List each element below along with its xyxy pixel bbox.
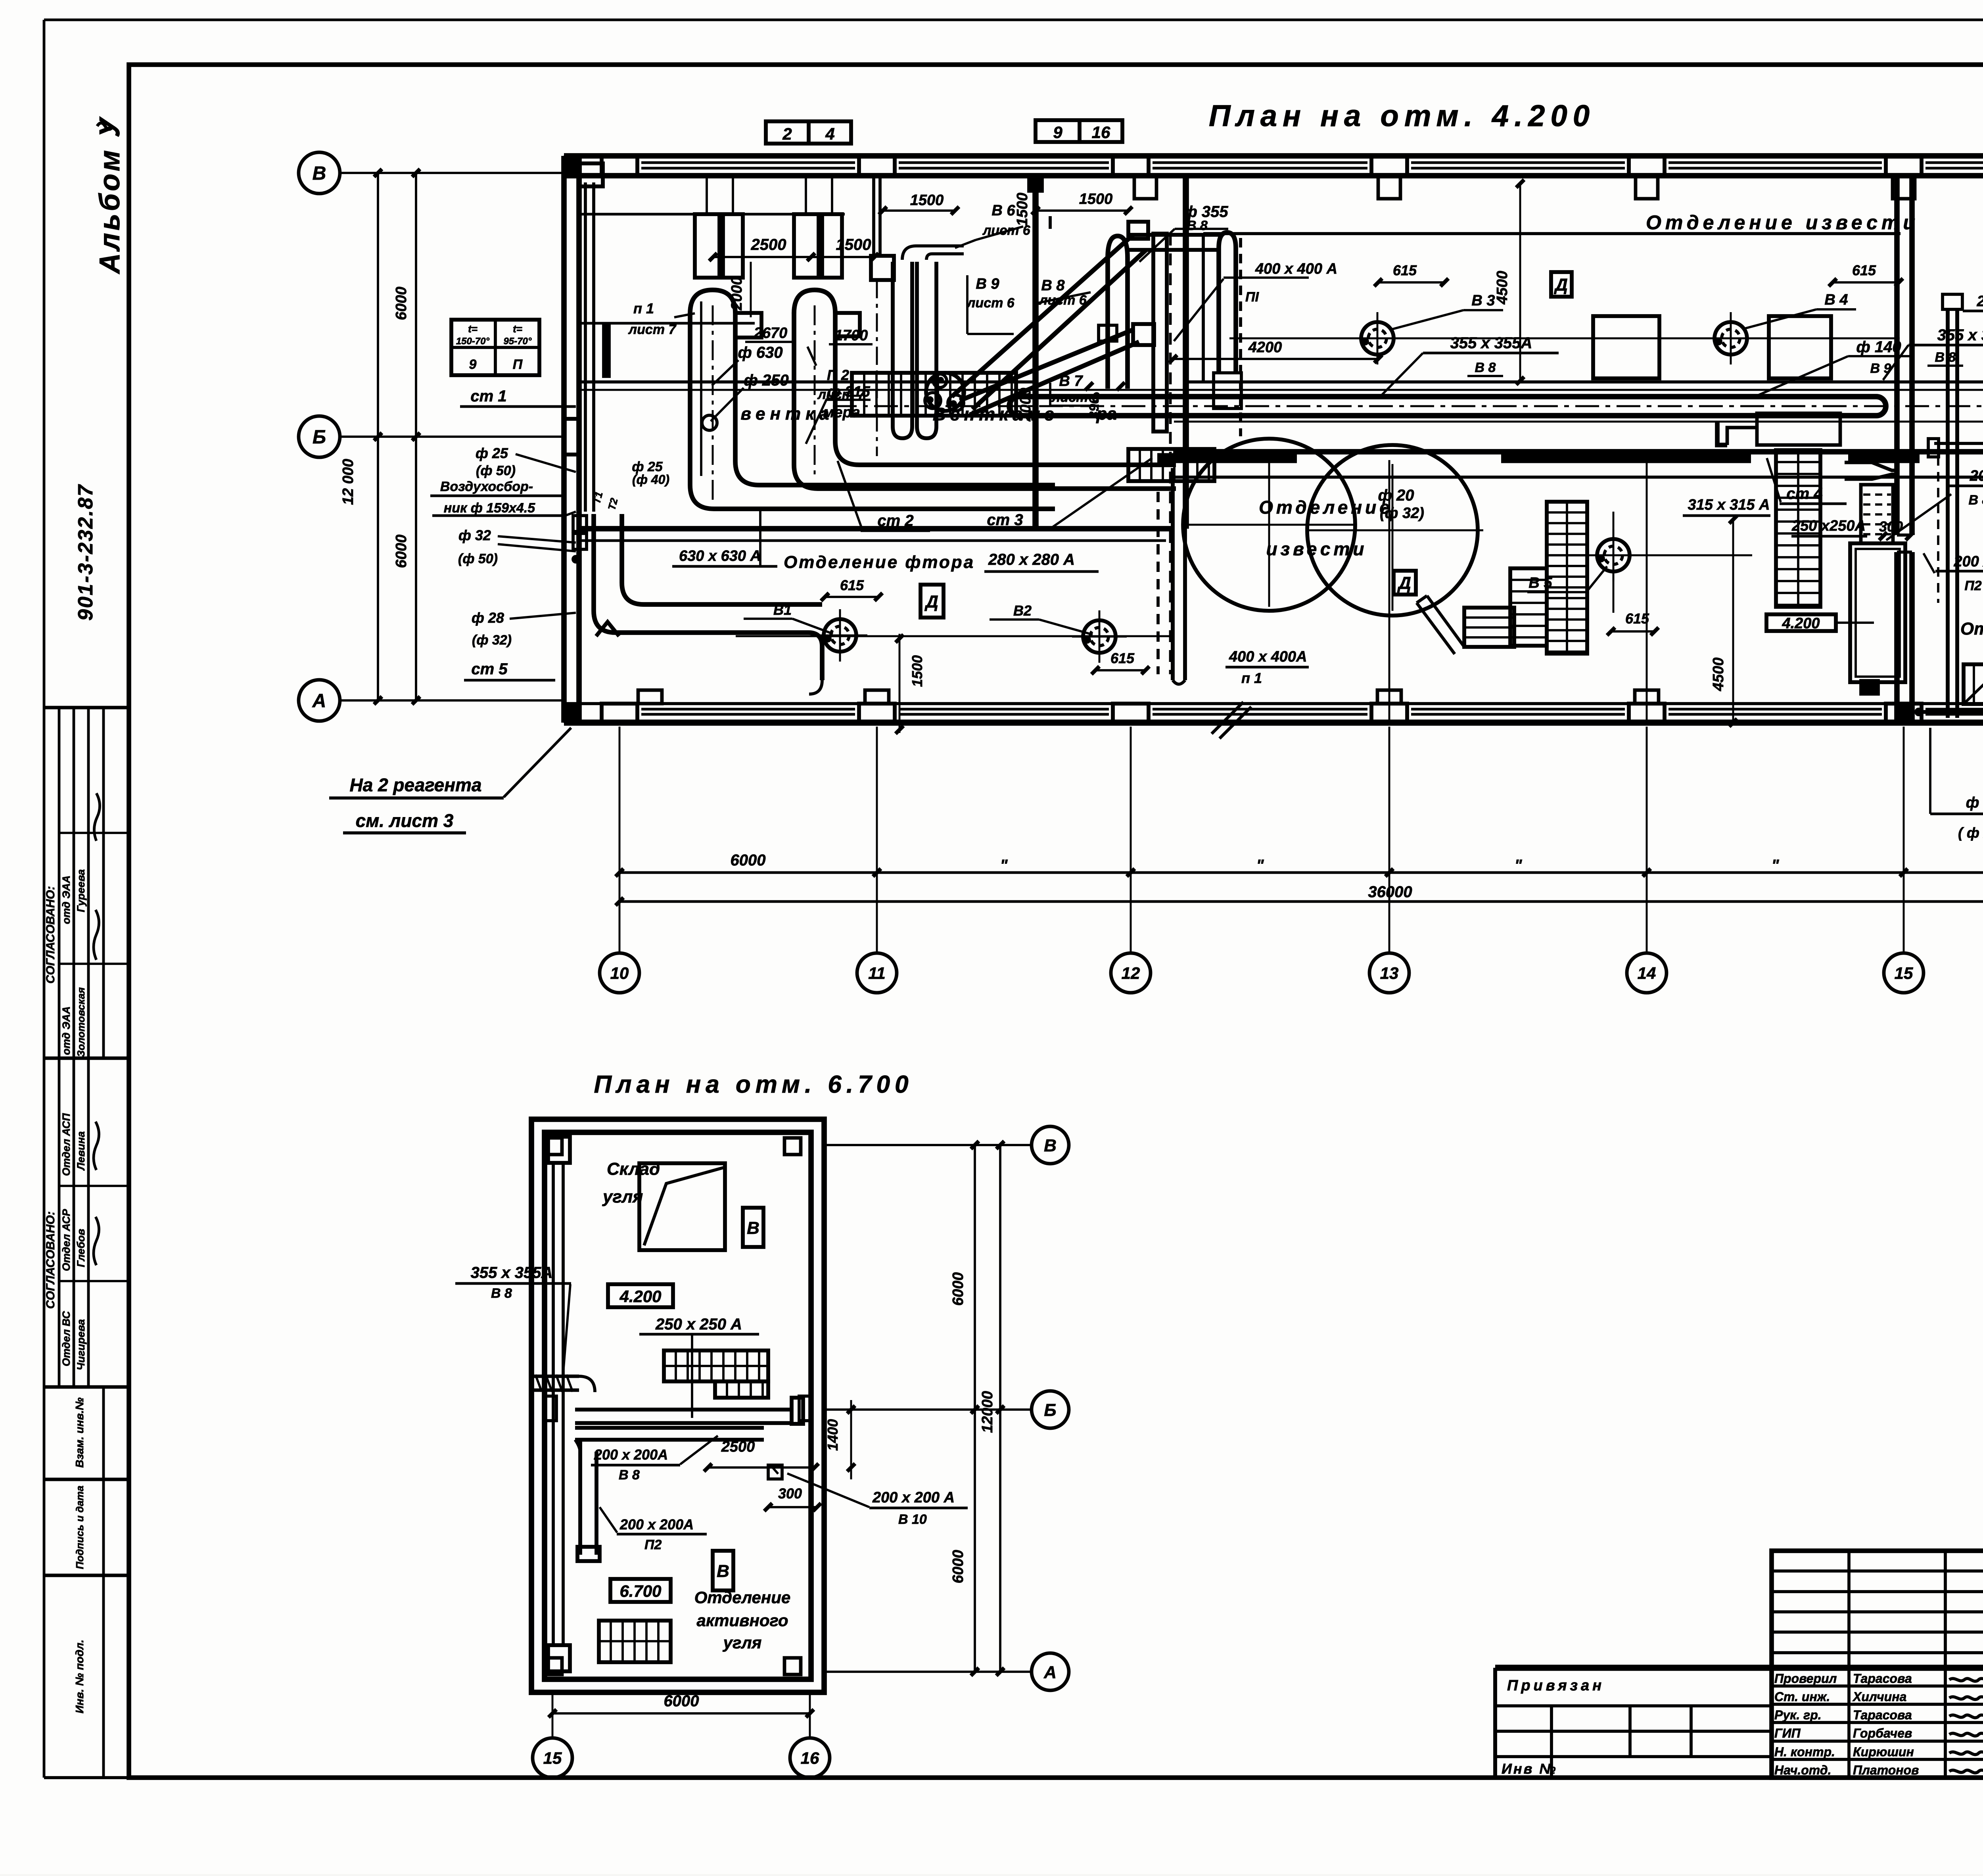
- svg-text:Д: Д: [924, 592, 938, 612]
- svg-text:ф 32: ф 32: [458, 527, 491, 543]
- svg-text:12: 12: [1122, 964, 1140, 982]
- svg-text:9: 9: [1053, 123, 1062, 142]
- svg-text:1500: 1500: [1079, 191, 1113, 207]
- svg-text:9: 9: [469, 357, 477, 372]
- svg-text:ст 2: ст 2: [877, 512, 913, 529]
- svg-text:2000: 2000: [729, 277, 745, 311]
- svg-text:В 6: В 6: [991, 202, 1015, 219]
- svg-text:П2: П2: [1964, 578, 1981, 593]
- svg-text:": ": [1256, 857, 1264, 874]
- svg-text:315 x 315 А: 315 x 315 А: [1688, 497, 1770, 513]
- svg-text:390: 390: [1087, 397, 1102, 419]
- svg-text:36000: 36000: [1368, 883, 1412, 901]
- svg-text:2000: 2000: [1017, 388, 1034, 422]
- svg-text:250 x 250 А: 250 x 250 А: [655, 1316, 742, 1333]
- svg-text:Инв №: Инв №: [1502, 1761, 1557, 1777]
- svg-text:Проверил: Проверил: [1774, 1671, 1837, 1686]
- svg-text:На 2 реагента: На 2 реагента: [349, 775, 481, 795]
- svg-text:В 8: В 8: [1041, 277, 1065, 294]
- svg-text:Тарасова: Тарасова: [1853, 1671, 1912, 1686]
- svg-text:355 x 355А: 355 x 355А: [1937, 326, 1983, 344]
- svg-text:4.200: 4.200: [619, 1287, 661, 1306]
- svg-text:12000: 12000: [979, 1391, 996, 1433]
- svg-text:630 x 630 А: 630 x 630 А: [679, 548, 761, 564]
- svg-text:В 8: В 8: [1969, 493, 1983, 508]
- svg-text:ф 25: ф 25: [476, 445, 508, 461]
- svg-text:Отдел ВС: Отдел ВС: [60, 1311, 72, 1366]
- svg-text:СОГЛАСОВАНО:: СОГЛАСОВАНО:: [44, 886, 57, 984]
- svg-text:300: 300: [778, 1485, 802, 1502]
- svg-text:200 x 200А: 200 x 200А: [594, 1446, 668, 1463]
- svg-text:(ф 50): (ф 50): [458, 551, 498, 566]
- svg-text:1700: 1700: [834, 327, 868, 344]
- svg-text:Привязан: Привязан: [1507, 1677, 1605, 1694]
- svg-text:15: 15: [1895, 964, 1913, 982]
- svg-text:п 1: п 1: [633, 300, 654, 317]
- svg-text:6000: 6000: [393, 287, 410, 320]
- svg-text:В: В: [313, 163, 326, 184]
- svg-text:150-70°: 150-70°: [456, 336, 490, 347]
- svg-text:ст 5: ст 5: [471, 660, 508, 678]
- svg-text:лист 6: лист 6: [966, 295, 1015, 311]
- svg-text:Отделение: Отделение: [694, 1588, 791, 1607]
- svg-text:1500: 1500: [1014, 193, 1031, 226]
- svg-text:400 x 400 А: 400 x 400 А: [1255, 261, 1337, 277]
- svg-text:В 8: В 8: [1187, 218, 1208, 233]
- svg-text:ф 630: ф 630: [738, 344, 782, 361]
- svg-text:t=: t=: [513, 323, 522, 335]
- svg-text:4500: 4500: [1494, 271, 1511, 305]
- svg-text:1500: 1500: [909, 655, 925, 687]
- svg-text:ПI: ПI: [1245, 290, 1259, 305]
- svg-text:2: 2: [782, 125, 792, 143]
- svg-text:лист 7: лист 7: [628, 322, 677, 337]
- svg-text:Отдел АСП: Отдел АСП: [60, 1113, 72, 1176]
- svg-text:1500: 1500: [836, 236, 871, 253]
- svg-text:6000: 6000: [731, 852, 766, 869]
- svg-text:Альбом У: Альбом У: [94, 116, 126, 274]
- svg-text:активного: активного: [696, 1611, 788, 1630]
- svg-text:4: 4: [825, 125, 834, 143]
- svg-text:": ": [1000, 857, 1008, 874]
- svg-text:ф 15: ф 15: [1966, 794, 1983, 811]
- svg-text:200 x 200А: 200 x 200А: [1970, 468, 1983, 484]
- svg-text:Н. контр.: Н. контр.: [1774, 1745, 1835, 1759]
- svg-text:6.700: 6.700: [619, 1582, 661, 1600]
- svg-text:В 3: В 3: [1471, 292, 1495, 309]
- svg-text:(ф 32): (ф 32): [472, 633, 512, 648]
- svg-text:В2: В2: [1013, 602, 1032, 619]
- svg-text:План на отм. 6.700: План на отм. 6.700: [594, 1071, 913, 1098]
- svg-text:угля: угля: [723, 1633, 762, 1652]
- svg-text:п 1: п 1: [1241, 670, 1262, 686]
- svg-text:План на отм. 4.200: План на отм. 4.200: [1209, 99, 1595, 133]
- svg-text:400 x 400А: 400 x 400А: [1229, 648, 1307, 665]
- svg-text:Горбачев: Горбачев: [1853, 1726, 1912, 1740]
- svg-text:ф 28: ф 28: [472, 610, 504, 626]
- svg-text:Д: Д: [1397, 574, 1411, 593]
- svg-text:ст 3: ст 3: [987, 511, 1023, 529]
- svg-text:Отделение фтора: Отделение фтора: [784, 552, 975, 572]
- svg-text:355 x 355А: 355 x 355А: [471, 1264, 553, 1281]
- svg-text:Инв. № подл.: Инв. № подл.: [73, 1640, 86, 1713]
- svg-text:200 x 200А: 200 x 200А: [619, 1516, 694, 1533]
- svg-text:Отделение: Отделение: [1259, 497, 1393, 518]
- svg-text:2670: 2670: [754, 325, 788, 341]
- svg-text:280 x 280 А: 280 x 280 А: [988, 551, 1075, 568]
- svg-text:вентка: вентка: [741, 404, 834, 424]
- svg-text:6000: 6000: [664, 1692, 699, 1710]
- svg-text:П: П: [513, 357, 523, 372]
- svg-text:В 8: В 8: [1475, 360, 1496, 375]
- svg-text:( ф 20): ( ф 20): [1958, 825, 1983, 841]
- svg-text:Левина: Левина: [75, 1131, 87, 1171]
- svg-text:200 x 200 А: 200 x 200 А: [1953, 553, 1983, 570]
- svg-text:В 9: В 9: [976, 276, 999, 292]
- svg-text:ф 250: ф 250: [744, 372, 788, 389]
- svg-text:13: 13: [1380, 964, 1399, 982]
- svg-text:ник ф 159х4.5: ник ф 159х4.5: [444, 501, 536, 516]
- svg-text:ст 4: ст 4: [1786, 485, 1822, 503]
- svg-text:Рук. гр.: Рук. гр.: [1774, 1708, 1822, 1722]
- svg-text:П2: П2: [644, 1537, 662, 1552]
- svg-text:Нач.отд.: Нач.отд.: [1774, 1763, 1831, 1777]
- svg-text:угля: угля: [602, 1187, 643, 1207]
- svg-text:12 000: 12 000: [340, 459, 357, 505]
- svg-text:250 x250А: 250 x250А: [1791, 518, 1866, 534]
- svg-text:В 10: В 10: [898, 1512, 927, 1527]
- svg-text:Т2: Т2: [606, 497, 620, 512]
- svg-text:4.200: 4.200: [1782, 615, 1820, 632]
- svg-text:Б: Б: [313, 427, 326, 448]
- svg-text:11: 11: [868, 964, 886, 982]
- svg-text:ст 1: ст 1: [470, 387, 506, 405]
- svg-text:Чигирева: Чигирева: [75, 1319, 87, 1370]
- svg-text:Д: Д: [1553, 275, 1568, 295]
- svg-text:15: 15: [543, 1749, 562, 1767]
- svg-text:В 8: В 8: [619, 1467, 640, 1483]
- svg-text:95-70°: 95-70°: [504, 336, 532, 347]
- svg-text:": ": [1772, 857, 1780, 874]
- svg-text:В: В: [717, 1561, 729, 1581]
- svg-text:В 8: В 8: [491, 1286, 512, 1301]
- svg-text:Ст. инж.: Ст. инж.: [1774, 1690, 1830, 1704]
- svg-text:Кирюшин: Кирюшин: [1853, 1745, 1914, 1759]
- svg-text:ф 20: ф 20: [1378, 487, 1414, 504]
- svg-text:отд ЭАА: отд ЭАА: [60, 1006, 72, 1055]
- svg-text:901-3-232.87: 901-3-232.87: [74, 484, 97, 621]
- svg-text:1500: 1500: [910, 192, 944, 209]
- svg-text:А: А: [312, 691, 326, 712]
- svg-text:(ф 50): (ф 50): [476, 463, 516, 478]
- svg-text:Платонов: Платонов: [1853, 1763, 1919, 1777]
- svg-text:615: 615: [1110, 650, 1135, 666]
- svg-text:В1: В1: [773, 602, 792, 618]
- svg-text:2500: 2500: [721, 1439, 755, 1455]
- svg-text:200 x 200 А: 200 x 200 А: [1976, 293, 1983, 310]
- svg-text:извести: извести: [1266, 539, 1367, 559]
- svg-text:355 x 355А: 355 x 355А: [1450, 334, 1532, 352]
- svg-text:В: В: [1044, 1136, 1057, 1155]
- svg-text:(ф 40): (ф 40): [632, 472, 669, 487]
- svg-text:16: 16: [1092, 123, 1110, 142]
- svg-text:СОГЛАСОВАНО:: СОГЛАСОВАНО:: [44, 1211, 57, 1309]
- svg-text:615: 615: [1852, 262, 1876, 278]
- svg-text:Хилчина: Хилчина: [1852, 1690, 1906, 1704]
- svg-text:см. лист 3: см. лист 3: [356, 810, 454, 831]
- svg-text:Отдел АСР: Отдел АСР: [60, 1208, 72, 1271]
- svg-text:14: 14: [1638, 964, 1656, 982]
- svg-text:В 4: В 4: [1824, 292, 1848, 308]
- svg-text:200 x 200 А: 200 x 200 А: [872, 1489, 955, 1506]
- svg-text:6000: 6000: [950, 1550, 967, 1584]
- svg-text:Б: Б: [1044, 1400, 1056, 1420]
- svg-text:А: А: [1043, 1663, 1057, 1682]
- svg-text:Взам. инв.№: Взам. инв.№: [73, 1397, 86, 1467]
- svg-text:615: 615: [840, 577, 864, 593]
- svg-text:Подпись и дата: Подпись и дата: [74, 1486, 86, 1569]
- svg-text:П 2: П 2: [827, 367, 849, 383]
- svg-text:Воздухосбор-: Воздухосбор-: [440, 479, 533, 494]
- svg-text:отд ЭАА: отд ЭАА: [60, 875, 72, 924]
- svg-text:Золотовская: Золотовская: [75, 987, 87, 1057]
- svg-text:В 8: В 8: [1935, 350, 1956, 365]
- svg-text:ГИП: ГИП: [1774, 1726, 1801, 1740]
- svg-text:В: В: [747, 1218, 759, 1238]
- svg-text:": ": [1515, 857, 1523, 874]
- svg-text:615: 615: [1625, 610, 1649, 627]
- svg-text:1400: 1400: [825, 1419, 841, 1451]
- svg-text:Глебов: Глебов: [75, 1229, 87, 1267]
- svg-text:16: 16: [801, 1749, 819, 1767]
- svg-text:4500: 4500: [1710, 658, 1727, 692]
- svg-text:6000: 6000: [393, 535, 410, 568]
- svg-text:2500: 2500: [751, 236, 786, 253]
- svg-text:10: 10: [610, 964, 629, 982]
- svg-text:t=: t=: [468, 323, 478, 335]
- svg-text:615: 615: [1393, 262, 1417, 278]
- svg-text:(ф 32): (ф 32): [1380, 505, 1424, 522]
- svg-text:Отделение: Отделение: [1960, 619, 1983, 639]
- svg-text:Гуреева: Гуреева: [75, 869, 87, 912]
- svg-text:4200: 4200: [1248, 339, 1282, 356]
- svg-text:Тарасова: Тарасова: [1853, 1708, 1912, 1722]
- svg-text:В 7: В 7: [1059, 373, 1083, 389]
- svg-text:6000: 6000: [950, 1272, 967, 1306]
- svg-text:В 5: В 5: [1528, 575, 1552, 591]
- svg-text:Отделение извести: Отделение извести: [1646, 211, 1919, 234]
